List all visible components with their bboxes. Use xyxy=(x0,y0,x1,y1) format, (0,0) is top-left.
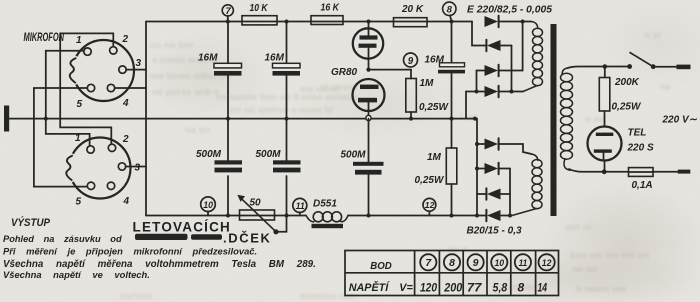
resistor 20K xyxy=(394,18,428,27)
connector J1 pin 3 xyxy=(119,66,126,73)
caption redaction blobs xyxy=(135,234,188,240)
rectifier E220 right vertical xyxy=(511,46,513,92)
switch S1 xyxy=(627,64,632,69)
mains terminal top xyxy=(677,65,691,70)
wire secondary bottom rail xyxy=(569,169,629,172)
wire pin1 J1 to pin1 J2 bus xyxy=(46,51,90,146)
neon lamp TEL 220S xyxy=(588,127,622,161)
connector J1 pin 1 xyxy=(84,48,91,55)
tube V2 (GR80 lower) xyxy=(353,79,385,111)
table header circles xyxy=(420,254,436,270)
node 12 xyxy=(423,198,436,211)
connector J1 notch xyxy=(73,58,76,82)
junction tube top xyxy=(367,20,371,24)
wire column x=451.5 xyxy=(451,22,453,216)
rectifier E220 right tall vertical xyxy=(522,22,524,71)
connector J2 notch xyxy=(69,156,72,180)
rectifier B20 row2 diode xyxy=(485,163,499,174)
mains terminal bottom xyxy=(678,170,691,174)
connector J2 pin 3 xyxy=(118,163,125,170)
junction top rail B xyxy=(285,20,289,24)
wire pin3 J2 stub xyxy=(126,166,146,168)
rectifier B20 row1 diode xyxy=(485,139,499,150)
rectifier B20 left vertical xyxy=(476,119,478,216)
rectifier B20 row3 diode (points left) xyxy=(487,189,501,200)
rectifier E220 row3 diode xyxy=(485,65,499,76)
wire column B x=286.5 xyxy=(286,22,288,216)
wire secondary top to switch xyxy=(568,67,630,69)
capacitor 16M (third) xyxy=(440,63,465,67)
tube V1 (GR80 upper) xyxy=(368,22,370,36)
capacitor 500M (second) xyxy=(273,160,301,164)
connector J2 pin 5 xyxy=(87,182,94,189)
inductor D551 xyxy=(306,216,314,222)
wire middle ground rail xyxy=(9,118,475,120)
capacitor 16M (first) xyxy=(214,63,242,68)
transformer winding W1 (primary upper left) xyxy=(531,22,538,29)
rectifier E220 row2 diode (points left) xyxy=(487,40,501,51)
capacitor 500M (first) xyxy=(215,160,243,164)
wire row4 to rail xyxy=(465,92,467,119)
table frame xyxy=(345,251,559,296)
connector J1 pin 2 xyxy=(110,47,117,54)
connector J1 xyxy=(73,40,134,101)
wire top rail xyxy=(146,21,472,23)
connector J1 pin 5 xyxy=(87,84,94,91)
junction rail diode bridge xyxy=(473,117,477,121)
rectifier B20 row4 diode on rail (points left) xyxy=(487,210,501,221)
node 7 xyxy=(222,5,233,16)
node 11 xyxy=(293,198,307,212)
capacitor 500M (third) xyxy=(353,162,384,166)
node 10 xyxy=(201,197,216,212)
output terminal xyxy=(4,106,9,132)
wire pin3 J1 stub xyxy=(126,69,146,71)
transformer core xyxy=(551,24,557,216)
wire column tube x=368.5 lower xyxy=(368,119,370,216)
rectifier E220 left link xyxy=(472,22,486,46)
connector J2 pin 2 xyxy=(108,144,115,151)
wire pin4 J1 to right bus xyxy=(115,87,146,89)
fuse 0,1A xyxy=(629,168,654,177)
rectifier B20 right vertical xyxy=(509,169,511,216)
resistor 200K xyxy=(604,67,606,127)
wire column A x=228 xyxy=(227,22,229,216)
connector J2 xyxy=(70,138,131,199)
wire pin5 J1 to pin5 J2 bus xyxy=(34,88,88,187)
transformer winding W2 (lower left) xyxy=(532,154,538,160)
connector J2 pin 4 xyxy=(107,182,114,189)
capacitor 16M (second) xyxy=(273,63,301,68)
wire pin2 J1 to pin2 J2 bus xyxy=(60,33,113,144)
junction rail-pin5 bus xyxy=(44,117,48,121)
junction between tubes xyxy=(366,68,370,72)
node 8 xyxy=(443,2,456,15)
connector J1 pin 4 xyxy=(107,84,114,91)
connector J2 pin 1 xyxy=(87,146,94,153)
wire left bus x=146 xyxy=(145,22,147,216)
resistor 1M (first) vertical xyxy=(410,70,412,119)
resistor 10K xyxy=(242,16,277,25)
resistor 16K xyxy=(311,16,343,25)
inductor D551 core xyxy=(312,224,344,228)
node 9 xyxy=(404,53,418,67)
rectifier E220 row4 diode xyxy=(485,86,499,97)
potentiometer 50 xyxy=(240,210,275,220)
wire bottom rail xyxy=(146,215,486,217)
resistor 1M (second) vertical xyxy=(446,148,457,184)
transformer winding W3 (secondary right) xyxy=(562,68,567,74)
wire grid link to 1M xyxy=(369,69,412,71)
rectifier E220 left lower vertical xyxy=(476,71,478,92)
rectifier E220 row1 diode xyxy=(485,16,499,27)
